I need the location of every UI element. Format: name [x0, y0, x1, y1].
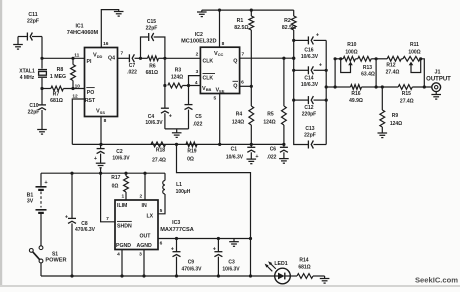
wire [72, 99, 84, 144]
svg-text:27.4Ω: 27.4Ω [152, 158, 166, 164]
op-amp U1 IC1 74HC4060M [67, 24, 124, 125]
svg-text:470/6.3V: 470/6.3V [181, 266, 202, 272]
capacitor C5 [185, 86, 203, 129]
wire [118, 57, 130, 59]
svg-text:+: + [316, 32, 319, 38]
potentiometer R11 [403, 42, 422, 73]
svg-text:R16: R16 [351, 91, 360, 97]
svg-text:C2: C2 [116, 149, 123, 155]
crystal XTAL1 [19, 58, 47, 88]
svg-text:.022: .022 [267, 155, 277, 161]
svg-text:+: + [319, 62, 322, 68]
svg-text:10: 10 [75, 83, 81, 89]
svg-text:63.4Ω: 63.4Ω [361, 72, 375, 78]
capacitor C9 [171, 239, 202, 278]
ground [96, 163, 106, 173]
node A [40, 87, 43, 90]
svg-text:+: + [94, 156, 97, 162]
ground [37, 130, 47, 135]
svg-text:124Ω: 124Ω [263, 120, 275, 126]
svg-text:74HC4060M: 74HC4060M [67, 30, 99, 36]
capacitor C4 [145, 86, 172, 129]
wire OUT line [158, 237, 251, 242]
svg-text:C13: C13 [305, 126, 314, 132]
svg-text:22pF: 22pF [27, 19, 39, 25]
capacitor C15 [141, 19, 165, 58]
wire [40, 37, 43, 60]
svg-text:+: + [65, 214, 68, 220]
wire [219, 10, 221, 47]
capacitor C6 [267, 144, 288, 160]
svg-text:S1: S1 [52, 251, 58, 257]
capacitor C8 [65, 173, 96, 277]
svg-text:ILIM: ILIM [117, 203, 127, 209]
svg-text:7: 7 [106, 216, 109, 222]
ground [378, 133, 388, 138]
capacitor C11 [18, 12, 42, 44]
resistor R18 [151, 142, 166, 164]
svg-text:5: 5 [160, 208, 163, 214]
op-amp U3 IC3 MAX777CSA [106, 194, 194, 258]
svg-text:10/6.3V: 10/6.3V [301, 82, 319, 88]
svg-text:0Ω: 0Ω [112, 183, 119, 189]
svg-text:Q: Q [233, 84, 237, 90]
svg-text:C1: C1 [231, 147, 238, 153]
ground [247, 159, 257, 164]
svg-text:5: 5 [213, 95, 216, 101]
svg-text:OUT: OUT [140, 234, 152, 240]
svg-text:4: 4 [195, 80, 198, 86]
battery B1 [27, 173, 49, 246]
svg-text:124Ω: 124Ω [390, 121, 402, 127]
resistor R12 [376, 56, 403, 75]
svg-text:Q: Q [233, 58, 237, 64]
svg-text:R15: R15 [402, 91, 411, 97]
wire [120, 250, 123, 278]
svg-text:7: 7 [241, 51, 244, 57]
svg-text:470/6.3V: 470/6.3V [75, 227, 96, 233]
svg-text:R9: R9 [392, 113, 399, 119]
svg-text:SeekIC.com: SeekIC.com [415, 276, 458, 285]
wire [335, 57, 343, 60]
resistor R14 [290, 258, 325, 279]
svg-text:R18: R18 [156, 148, 165, 154]
wire [240, 57, 296, 60]
svg-text:2: 2 [196, 51, 199, 57]
svg-text:SHDN: SHDN [117, 223, 132, 229]
svg-text:C12: C12 [304, 105, 313, 111]
svg-text:C14: C14 [304, 76, 313, 82]
svg-text:C11: C11 [28, 12, 37, 18]
resistor R16 [335, 85, 376, 104]
svg-text:10/6.3V: 10/6.3V [222, 266, 240, 272]
svg-text:681Ω: 681Ω [298, 265, 310, 271]
svg-text:4: 4 [117, 251, 120, 257]
wire [165, 129, 189, 133]
wire [189, 76, 201, 86]
wire bottom rail [41, 275, 275, 277]
wire [42, 57, 85, 59]
svg-text:681Ω: 681Ω [50, 98, 63, 104]
svg-text:R6: R6 [149, 63, 156, 69]
svg-text:VBB: VBB [202, 86, 212, 92]
svg-text:1 MEG: 1 MEG [50, 74, 66, 80]
ground [114, 12, 124, 17]
svg-text:1: 1 [121, 194, 124, 200]
LED LED1 [265, 261, 291, 284]
capacitor C2 [94, 144, 130, 163]
svg-text:OUTPUT: OUTPUT [426, 77, 451, 83]
svg-text:C7: C7 [129, 63, 136, 69]
svg-text:VSS: VSS [96, 109, 105, 115]
svg-text:27.4Ω: 27.4Ω [400, 98, 414, 104]
svg-text:+: + [169, 113, 172, 119]
wire [202, 9, 294, 12]
svg-text:C6: C6 [270, 147, 277, 153]
svg-text:R13: R13 [363, 65, 372, 71]
svg-text:J1: J1 [435, 70, 441, 76]
wire [101, 173, 115, 222]
svg-text:10/6.3V: 10/6.3V [226, 155, 244, 161]
resistor R17 [111, 173, 128, 200]
wire [218, 94, 221, 146]
svg-text:R12: R12 [386, 62, 395, 68]
connector J1 [426, 70, 451, 95]
wire stack right [325, 40, 328, 144]
svg-text:CLK: CLK [203, 59, 214, 65]
svg-text:6: 6 [241, 79, 244, 85]
resistor R2 [282, 10, 296, 42]
svg-text:VDD: VDD [93, 53, 103, 59]
svg-text:IC1: IC1 [75, 24, 83, 30]
ground [279, 159, 289, 164]
capacitor C10 [28, 89, 46, 130]
svg-text:22pF: 22pF [146, 26, 158, 32]
svg-text:49.9Ω: 49.9Ω [349, 98, 363, 104]
wire node C [375, 57, 378, 88]
resistor R19 [186, 142, 197, 163]
svg-text:L1: L1 [176, 182, 182, 188]
ground [172, 133, 182, 138]
svg-text:27.4Ω: 27.4Ω [386, 69, 400, 75]
capacitor C12 [294, 96, 327, 117]
svg-text:7: 7 [120, 50, 123, 56]
resistor R3 [168, 68, 201, 88]
svg-text:8: 8 [104, 118, 107, 124]
svg-text:10/6.3V: 10/6.3V [145, 120, 163, 126]
svg-text:XTAL1: XTAL1 [19, 69, 35, 75]
potentiometer R10 [341, 42, 358, 73]
svg-text:IC3: IC3 [172, 220, 180, 226]
resistor R8 [50, 57, 75, 90]
svg-text:C3: C3 [228, 259, 235, 265]
svg-text:AGND: AGND [137, 243, 153, 249]
resistor R1 [234, 10, 253, 86]
wire [240, 85, 253, 88]
svg-text:R7: R7 [53, 92, 60, 98]
wire [165, 57, 201, 59]
svg-text:124Ω: 124Ω [171, 75, 183, 81]
svg-text:R8: R8 [57, 67, 64, 73]
svg-text:PO: PO [87, 90, 95, 96]
resistor R13 [355, 56, 376, 77]
svg-text:22pF: 22pF [28, 110, 40, 116]
svg-text:IN: IN [142, 203, 147, 209]
svg-text:R19: R19 [187, 149, 196, 155]
ground [13, 45, 23, 50]
svg-text:LX: LX [147, 213, 154, 219]
svg-text:R2: R2 [284, 18, 291, 24]
svg-text:681Ω: 681Ω [146, 70, 158, 76]
svg-text:PGND: PGND [116, 243, 131, 249]
svg-text:C5: C5 [195, 114, 202, 120]
svg-text:4 MHz: 4 MHz [20, 75, 35, 81]
wire [101, 10, 118, 48]
wire stack left [292, 40, 308, 144]
capacitor C13 [304, 126, 326, 149]
svg-text:220pF: 220pF [302, 112, 316, 118]
svg-text:100Ω: 100Ω [408, 50, 420, 56]
ground [197, 12, 207, 17]
resistor R5 [263, 58, 286, 146]
svg-text:R5: R5 [267, 112, 274, 118]
wire [421, 59, 426, 89]
resistor R6 [141, 56, 167, 76]
ground [320, 279, 330, 284]
svg-text:R1: R1 [237, 18, 244, 24]
watermark [415, 276, 458, 285]
capacitor C1 [226, 144, 259, 160]
wire VEE link [177, 144, 253, 277]
inductor L1 [158, 173, 191, 214]
resistor R4 [232, 86, 254, 146]
wire [144, 173, 146, 200]
svg-text:0Ω: 0Ω [187, 157, 194, 163]
svg-text:IC2: IC2 [195, 32, 203, 38]
svg-text:22pF: 22pF [304, 133, 316, 139]
svg-text:82.5Ω: 82.5Ω [234, 25, 248, 31]
svg-text:C10: C10 [29, 103, 38, 109]
svg-text:PI: PI [87, 59, 92, 65]
svg-text:.022: .022 [127, 70, 137, 76]
resistor R7 [42, 86, 85, 104]
svg-text:R14: R14 [299, 258, 308, 264]
svg-text:R17: R17 [111, 175, 120, 181]
svg-text:R3: R3 [175, 68, 182, 74]
svg-text:3: 3 [196, 69, 199, 75]
svg-text:R10: R10 [347, 42, 356, 48]
svg-text:2: 2 [139, 194, 142, 200]
svg-text:LED1: LED1 [274, 261, 287, 267]
wire [326, 85, 337, 88]
capacitor C3 [213, 239, 241, 278]
switch S1 [29, 246, 66, 276]
svg-text:8: 8 [222, 41, 225, 47]
svg-text:C9: C9 [188, 259, 195, 265]
svg-text:VCC: VCC [214, 51, 224, 57]
svg-text:MAX777CSA: MAX777CSA [160, 227, 194, 233]
wire [163, 58, 166, 87]
resistor R15 [376, 85, 432, 105]
svg-text:3: 3 [139, 251, 142, 257]
svg-text:C15: C15 [147, 19, 156, 25]
svg-text:3V: 3V [27, 199, 34, 205]
wire battery rail [41, 172, 165, 175]
svg-text:Q4: Q4 [108, 56, 115, 62]
ground [431, 95, 441, 100]
svg-text:.022: .022 [193, 122, 203, 128]
svg-text:RST: RST [85, 98, 96, 104]
svg-text:6: 6 [160, 240, 163, 246]
wire [142, 250, 145, 278]
svg-text:R11: R11 [410, 42, 419, 48]
svg-text:POWER: POWER [45, 258, 66, 264]
resistor R9 [380, 87, 402, 133]
op-amp U2 IC2 MC100EL32D [181, 32, 244, 101]
svg-text:10/6.3V: 10/6.3V [112, 156, 130, 162]
svg-text:16: 16 [103, 41, 109, 47]
svg-text:10/6.3V: 10/6.3V [301, 54, 319, 60]
wire node B [334, 57, 337, 87]
ground [229, 242, 239, 247]
svg-text:100µH: 100µH [176, 189, 191, 195]
svg-text:CLK: CLK [203, 76, 214, 82]
svg-text:MC100EL32D: MC100EL32D [181, 38, 216, 44]
svg-text:R4: R4 [236, 112, 243, 118]
capacitor C7 [127, 54, 142, 75]
wire VEE rail [72, 143, 284, 146]
svg-text:100Ω: 100Ω [345, 50, 357, 56]
svg-text:VEE: VEE [216, 87, 225, 93]
capacitor C14 [294, 62, 327, 88]
svg-text:C16: C16 [304, 47, 313, 53]
capacitor C16 [294, 32, 327, 60]
svg-text:11: 11 [74, 52, 79, 58]
wire [99, 117, 102, 146]
svg-text:124Ω: 124Ω [232, 120, 244, 126]
